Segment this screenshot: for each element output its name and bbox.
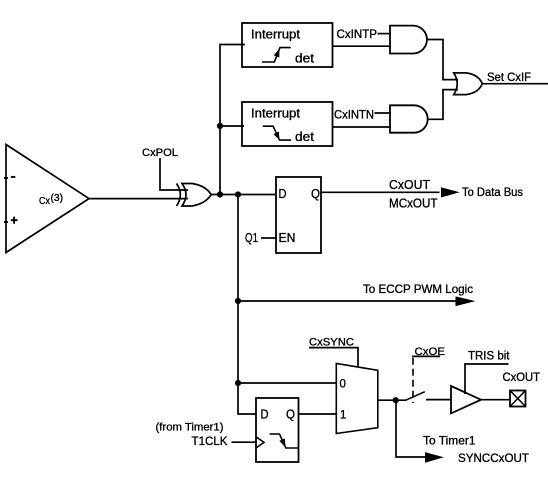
- svg-text:D: D: [279, 187, 287, 201]
- svg-text:1: 1: [340, 410, 346, 422]
- svg-text:Interrupt: Interrupt: [251, 26, 300, 41]
- svg-text:det: det: [295, 50, 314, 65]
- svg-text:CxOE: CxOE: [415, 346, 446, 358]
- svg-text:To Timer1: To Timer1: [423, 434, 476, 448]
- svg-text:Q: Q: [286, 408, 295, 422]
- svg-text:CxINTN: CxINTN: [334, 108, 374, 122]
- svg-text:Cx: Cx: [39, 196, 50, 207]
- svg-text:Q: Q: [311, 187, 320, 201]
- svg-text:T1CLK: T1CLK: [192, 434, 228, 448]
- svg-text:MCxOUT: MCxOUT: [389, 197, 438, 211]
- svg-text:CxSYNC: CxSYNC: [309, 337, 354, 349]
- svg-text:EN: EN: [279, 231, 296, 245]
- svg-text:det: det: [295, 129, 314, 144]
- svg-text:(3): (3): [51, 193, 64, 204]
- svg-text:TRIS bit: TRIS bit: [468, 351, 510, 363]
- svg-text:Set CxIF: Set CxIF: [487, 70, 531, 84]
- svg-text:To ECCP PWM Logic: To ECCP PWM Logic: [363, 282, 473, 296]
- svg-text:CxPOL: CxPOL: [142, 147, 178, 159]
- svg-text:CxOUT: CxOUT: [503, 370, 541, 384]
- svg-text:CxOUT: CxOUT: [389, 178, 430, 192]
- svg-text:To Data Bus: To Data Bus: [462, 185, 523, 199]
- svg-text:Q1: Q1: [245, 231, 258, 245]
- svg-text:0: 0: [340, 378, 346, 390]
- svg-text:CxINTP: CxINTP: [337, 27, 378, 41]
- svg-text:(from Timer1): (from Timer1): [156, 422, 224, 434]
- svg-text:SYNCCxOUT: SYNCCxOUT: [458, 451, 530, 465]
- svg-text:D: D: [261, 408, 269, 422]
- svg-text:Interrupt: Interrupt: [251, 105, 300, 120]
